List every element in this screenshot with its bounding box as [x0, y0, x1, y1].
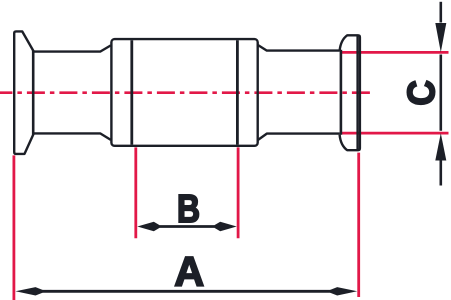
left flange weld seam	[32, 50, 35, 134]
arrowhead A left	[16, 287, 43, 295]
left tube bottom edge + taper to body	[33, 133, 111, 140]
extension line C top	[342, 51, 449, 54]
center body right seam	[236, 40, 239, 144]
center body cylinder	[111, 39, 257, 146]
dimension line C upper shaft	[439, 2, 442, 23]
arrowhead B left	[137, 222, 159, 232]
extension line B right	[237, 147, 240, 238]
svg-text:C: C	[401, 80, 443, 106]
extension line C bottom	[342, 132, 449, 135]
arrowhead C top	[435, 23, 446, 52]
right taper + tube top edge	[258, 45, 340, 51]
dimension line B	[157, 225, 217, 228]
right flange groove line	[356, 36, 358, 149]
dimension line C lower shaft	[439, 160, 442, 186]
extension line B left	[134, 147, 137, 238]
arrowhead B right	[215, 222, 237, 232]
svg-text:B: B	[177, 188, 200, 231]
right flange weld seam	[340, 50, 343, 135]
dimension line A	[40, 290, 333, 293]
centerline (red dash-dot axis)	[0, 91, 372, 94]
left tube top edge + taper to body	[33, 45, 111, 51]
left flange outline	[14, 31, 34, 153]
right flange outline	[340, 35, 360, 150]
right taper + tube bottom edge	[258, 134, 340, 141]
arrowhead C bottom	[435, 133, 446, 160]
extension line A left	[12, 155, 15, 300]
center body left seam	[130, 40, 133, 144]
dimension line C middle segment	[439, 55, 442, 131]
svg-text:A: A	[174, 248, 204, 295]
extension line A right	[357, 153, 360, 297]
arrowhead A right	[330, 287, 357, 295]
